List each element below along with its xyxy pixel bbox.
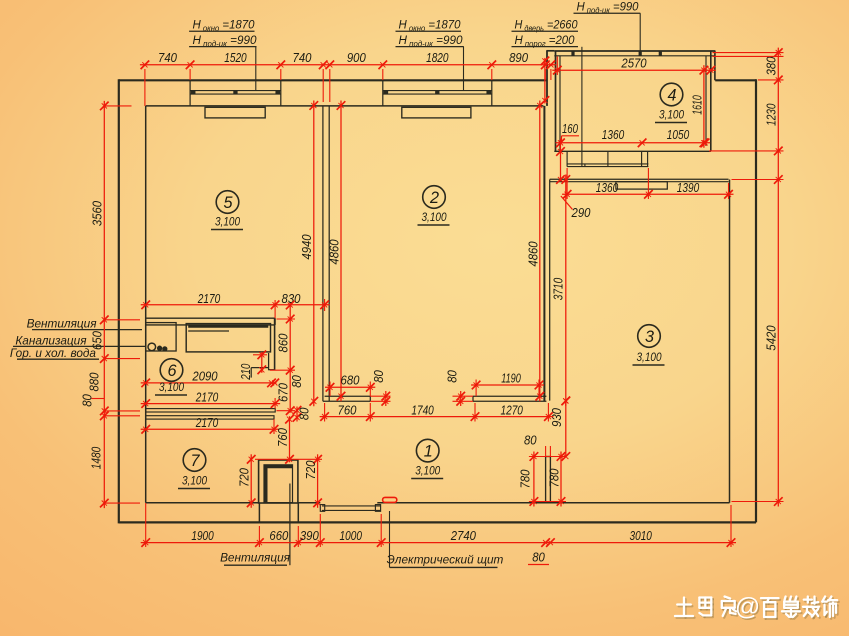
svg-text:3,100: 3,100	[422, 210, 447, 224]
svg-text:Вентиляция: Вентиляция	[27, 317, 98, 331]
svg-text:740: 740	[158, 51, 177, 65]
svg-text:660: 660	[269, 529, 288, 543]
svg-text:290: 290	[571, 206, 591, 220]
svg-text:3,100: 3,100	[159, 380, 184, 394]
svg-text:5: 5	[223, 194, 233, 212]
svg-text:4860: 4860	[327, 239, 341, 264]
svg-text:890: 890	[509, 51, 528, 65]
svg-text:650: 650	[91, 331, 105, 350]
svg-text:3: 3	[645, 328, 654, 346]
svg-text:880: 880	[88, 373, 102, 392]
svg-text:160: 160	[562, 122, 578, 136]
svg-text:1270: 1270	[501, 403, 523, 417]
svg-text:390: 390	[300, 529, 319, 543]
svg-text:3,100: 3,100	[215, 215, 240, 229]
svg-text:4860: 4860	[526, 241, 540, 266]
svg-text:4: 4	[667, 86, 676, 104]
svg-text:1050: 1050	[667, 128, 689, 142]
svg-text:2170: 2170	[197, 292, 220, 306]
svg-text:2: 2	[429, 189, 439, 207]
svg-text:80: 80	[290, 375, 304, 388]
svg-text:740: 740	[293, 51, 312, 65]
svg-text:80: 80	[446, 370, 460, 383]
svg-text:3,100: 3,100	[659, 108, 684, 122]
svg-text:6: 6	[167, 362, 176, 380]
svg-text:1000: 1000	[340, 529, 362, 543]
svg-text:1520: 1520	[224, 51, 246, 65]
svg-text:2170: 2170	[195, 390, 218, 404]
svg-text:1610: 1610	[690, 95, 704, 115]
svg-text:760: 760	[338, 403, 357, 417]
svg-text:@: @	[735, 593, 760, 621]
svg-text:2170: 2170	[195, 416, 218, 430]
svg-text:930: 930	[550, 408, 564, 427]
svg-text:900: 900	[347, 51, 366, 65]
svg-text:1190: 1190	[501, 371, 521, 385]
svg-text:3,100: 3,100	[415, 464, 440, 478]
svg-text:760: 760	[276, 428, 290, 447]
svg-text:860: 860	[277, 334, 291, 353]
svg-text:7: 7	[190, 452, 200, 470]
svg-text:780: 780	[548, 469, 562, 488]
svg-text:1740: 1740	[411, 403, 433, 417]
svg-text:2090: 2090	[192, 370, 218, 384]
svg-text:2570: 2570	[621, 57, 647, 71]
svg-text:780: 780	[519, 470, 533, 489]
svg-text:720: 720	[238, 468, 252, 487]
svg-text:3010: 3010	[630, 529, 652, 543]
svg-text:80: 80	[81, 394, 95, 407]
svg-text:680: 680	[341, 374, 360, 388]
svg-text:80: 80	[532, 551, 545, 565]
svg-text:Гор. и хол. вода: Гор. и хол. вода	[10, 346, 97, 360]
svg-text:720: 720	[304, 461, 318, 480]
svg-text:80: 80	[524, 434, 537, 448]
svg-text:1360: 1360	[602, 128, 624, 142]
svg-text:5420: 5420	[765, 325, 779, 350]
svg-text:1900: 1900	[191, 529, 213, 543]
svg-text:2740: 2740	[450, 529, 476, 543]
svg-text:1390: 1390	[677, 181, 699, 195]
svg-text:80: 80	[372, 370, 386, 383]
svg-text:3710: 3710	[552, 278, 566, 300]
svg-text:3560: 3560	[91, 201, 105, 226]
svg-text:4940: 4940	[300, 234, 314, 259]
svg-text:1230: 1230	[765, 103, 779, 125]
svg-text:Вентиляция: Вентиляция	[220, 551, 291, 565]
svg-text:1480: 1480	[90, 447, 104, 469]
svg-text:Электрический щит: Электрический щит	[387, 552, 504, 566]
svg-text:1820: 1820	[426, 51, 448, 65]
svg-text:3,100: 3,100	[637, 350, 662, 364]
svg-text:1360: 1360	[596, 181, 618, 195]
svg-text:380: 380	[765, 57, 779, 76]
svg-text:1: 1	[424, 442, 433, 460]
svg-text:210: 210	[239, 364, 253, 381]
svg-text:80: 80	[298, 407, 312, 420]
svg-text:3,100: 3,100	[182, 474, 207, 488]
